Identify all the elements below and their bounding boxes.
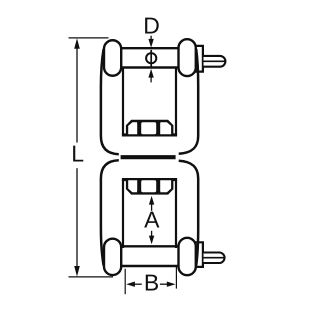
dimension L extension line top: [69, 37, 109, 39]
dimension L line lower segment: [76, 168, 78, 268]
bottom pin tip thread line: [204, 257, 225, 259]
lower swivel nut body: [126, 178, 173, 194]
dimension L arrow down: [74, 266, 80, 277]
bottom pin threaded tip: [204, 253, 225, 264]
top pin hole axis line: [150, 50, 152, 67]
lower left ear: [104, 239, 121, 275]
upper nut facet dots: [137, 121, 141, 125]
lower body left outline: [101, 160, 119, 265]
upper right ear: [178, 39, 195, 76]
swivel waist bar: [121, 155, 176, 159]
dimension A arrow down: [151, 231, 153, 237]
lower inner cavity sides: [123, 180, 176, 249]
bottom pin head washer rect: [191, 242, 203, 267]
bottom pin shaft lines: [119, 246, 181, 266]
lower nut right facet: [160, 180, 171, 192]
lower inner cavity top: [122, 178, 177, 181]
lower nut middle facet: [141, 180, 156, 192]
top pin shaft lines: [119, 48, 181, 67]
lower right ear: [178, 238, 195, 275]
upper nut right facet: [160, 122, 171, 134]
dimension B extension line right: [175, 267, 177, 289]
top pin hole circle: [146, 53, 156, 63]
upper inner cavity sides: [123, 67, 176, 136]
top pin threaded tip: [204, 56, 226, 67]
lower nut left facet: [128, 180, 137, 192]
top pin tip thread line: [204, 60, 225, 62]
upper body left outline: [101, 49, 119, 154]
dimension L extension line bottom: [69, 276, 114, 278]
lower body right outline: [179, 161, 199, 266]
dimension B arrow right: [160, 283, 168, 285]
lower nut facet dots: [137, 190, 141, 194]
upper body right outline: [179, 49, 199, 154]
upper inner cavity bottom: [122, 133, 177, 136]
upper swivel nut body: [126, 120, 173, 136]
svg-text:B: B: [144, 270, 159, 296]
dimension L arrow up: [74, 38, 80, 49]
svg-text:L: L: [71, 141, 84, 167]
upper left ear: [104, 40, 121, 75]
dimension L line upper segment: [76, 47, 78, 143]
dimension D arrow down: [150, 36, 152, 41]
upper nut left facet: [128, 122, 137, 134]
upper nut middle facet: [141, 122, 156, 134]
svg-text:D: D: [143, 13, 160, 39]
svg-text:A: A: [144, 207, 160, 233]
dimension A arrow up: [151, 204, 153, 211]
dimension B extension line left: [124, 269, 126, 294]
dimension D arrow up: [150, 77, 152, 82]
top pin head washer rect: [191, 46, 203, 72]
dimension B arrow left: [134, 283, 142, 285]
